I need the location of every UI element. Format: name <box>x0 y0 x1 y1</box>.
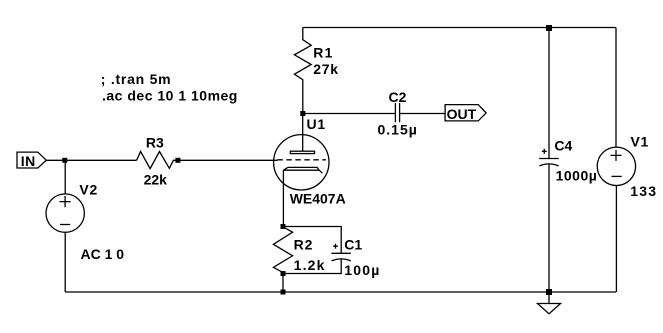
svg-text:R2: R2 <box>294 236 314 252</box>
svg-text:27k: 27k <box>313 61 338 77</box>
svg-text:C2: C2 <box>389 89 407 105</box>
svg-text:0.15µ: 0.15µ <box>378 122 418 138</box>
svg-text:133: 133 <box>630 183 657 199</box>
svg-text:V1: V1 <box>631 133 649 149</box>
svg-text:1000µ: 1000µ <box>556 168 598 184</box>
svg-text:R3: R3 <box>146 134 164 150</box>
svg-text:V2: V2 <box>79 181 98 197</box>
svg-text:100µ: 100µ <box>344 262 380 278</box>
svg-text:IN: IN <box>21 153 36 169</box>
svg-text:1.2k: 1.2k <box>294 257 326 273</box>
svg-text:U1: U1 <box>307 116 327 132</box>
svg-text:AC 1 0: AC 1 0 <box>81 246 125 262</box>
svg-text:WE407A: WE407A <box>290 191 346 207</box>
svg-text:OUT: OUT <box>447 106 477 122</box>
svg-text:C4: C4 <box>554 138 572 154</box>
svg-text:.ac dec 10 1 10meg: .ac dec 10 1 10meg <box>102 88 238 104</box>
svg-text:; .tran 5m: ; .tran 5m <box>101 71 172 87</box>
svg-text:C1: C1 <box>344 236 362 252</box>
svg-text:R1: R1 <box>313 44 333 60</box>
svg-text:22k: 22k <box>144 171 168 187</box>
